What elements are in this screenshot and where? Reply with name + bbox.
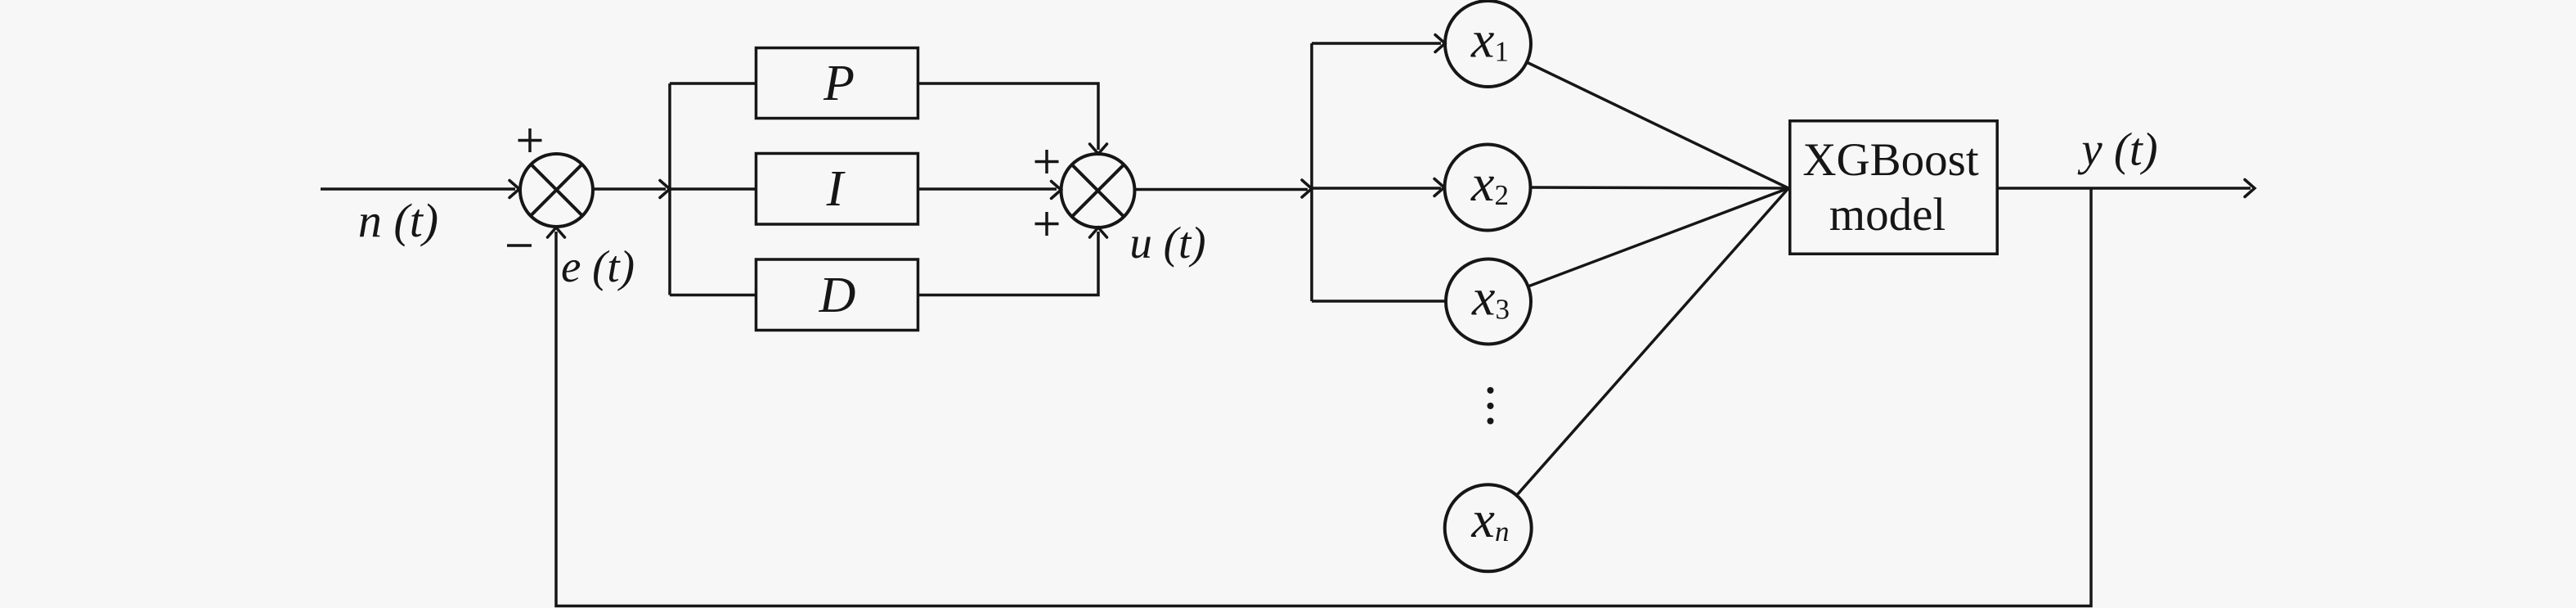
svg-text:u (t): u (t) xyxy=(1129,218,1205,268)
svg-text:P: P xyxy=(823,56,855,111)
svg-text:x1: x1 xyxy=(1470,11,1509,69)
svg-text:x3: x3 xyxy=(1471,268,1510,327)
svg-text:y (t): y (t) xyxy=(2077,124,2157,176)
svg-text:I: I xyxy=(826,161,846,217)
svg-text:n (t): n (t) xyxy=(358,194,438,247)
svg-text:D: D xyxy=(819,268,856,323)
svg-text:model: model xyxy=(1829,189,1945,241)
svg-text:x2: x2 xyxy=(1470,154,1509,212)
svg-text:e (t): e (t) xyxy=(561,241,635,291)
svg-text:XGBoost: XGBoost xyxy=(1802,134,1979,186)
svg-text:xn: xn xyxy=(1471,490,1510,548)
